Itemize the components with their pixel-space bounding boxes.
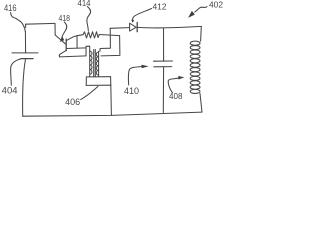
- leader 410 tail: [128, 67, 141, 85]
- battery 404 wire bottom: [23, 59, 26, 116]
- svg-text:410: 410: [124, 86, 139, 96]
- svg-text:404: 404: [2, 86, 18, 96]
- transistor Q1 collector: [66, 36, 77, 41]
- bottom rail: [23, 112, 202, 116]
- resistor R1 zigzag 414: [83, 32, 99, 38]
- wire switch to corner: [26, 22, 55, 25]
- transistor Q1 bar: [65, 39, 67, 51]
- svg-text:406: 406: [65, 97, 80, 107]
- capacitor C1 branch upper: [163, 28, 165, 61]
- wire collector drop: [76, 36, 78, 48]
- svg-text:408: 408: [169, 92, 183, 101]
- transformer T1 winding bottom line: [86, 76, 110, 78]
- leader 418 arrowhead: [60, 36, 64, 42]
- battery 404 top plate: [12, 52, 38, 54]
- leader 408 arrowhead: [178, 76, 184, 80]
- leader 402 arrowhead: [188, 11, 195, 18]
- inductor L1 coil 408: [190, 41, 200, 93]
- transformer T1 core lines: [94, 50, 96, 77]
- label 404: [2, 86, 18, 96]
- svg-text:414: 414: [78, 0, 91, 8]
- resistor R1 wire left: [77, 35, 83, 36]
- svg-text:416: 416: [4, 3, 17, 13]
- leader 410 arrowhead: [141, 65, 148, 69]
- capacitor C1 bottom plate: [154, 66, 172, 68]
- label 418: [59, 13, 71, 23]
- capacitor C1 branch lower: [162, 67, 164, 113]
- label 416: [4, 3, 17, 13]
- label 412: [153, 1, 167, 11]
- transformer T1 secondary winding: [96, 51, 98, 77]
- wire base diagonal: [55, 35, 65, 44]
- diode D1 triangle: [130, 23, 137, 31]
- capacitor C1 top plate: [154, 60, 173, 62]
- leader 416: [11, 13, 16, 19]
- wire top rail to diode: [110, 27, 129, 30]
- switch S1 blade: [16, 18, 25, 31]
- transformer T1 box right side: [110, 77, 112, 86]
- wire base-right horizontal: [66, 47, 86, 50]
- label 414: [78, 0, 91, 8]
- leader 412 arrowhead: [131, 20, 134, 23]
- wire emitter bottom: [60, 56, 86, 57]
- inductor L1 top wire: [200, 26, 203, 41]
- transformer T1 box left side: [85, 77, 87, 86]
- inductor L1 bottom wire: [200, 94, 202, 113]
- leader 418: [62, 22, 67, 38]
- label 410: [124, 86, 139, 96]
- battery 404 wire top: [24, 32, 26, 53]
- wire emitter jog up: [86, 46, 90, 56]
- leader 406: [81, 86, 98, 99]
- label 408: [169, 92, 183, 101]
- switch S1 contact stub: [25, 24, 27, 27]
- wire B drop from resistor line: [101, 36, 120, 56]
- leader 412: [133, 9, 152, 22]
- leader 404: [11, 59, 21, 85]
- transistor Q1 emitter: [59, 50, 66, 57]
- leader 414: [87, 7, 91, 31]
- battery 404 bottom plate: [21, 58, 33, 60]
- leader 408: [168, 78, 178, 93]
- svg-text:402: 402: [209, 0, 223, 10]
- transformer T1 skirt: [86, 84, 111, 86]
- wire resistor out: [99, 35, 119, 36]
- label 402: [209, 0, 223, 10]
- top rail diode to right corner: [137, 26, 201, 28]
- leader 402 squiggle: [195, 7, 207, 13]
- diode D1 cathode bar: [136, 22, 138, 31]
- wire corner down: [54, 23, 56, 35]
- transformer T1 primary winding: [90, 50, 92, 76]
- label 406: [65, 97, 80, 107]
- wire node up to top rail: [100, 28, 111, 51]
- svg-text:412: 412: [153, 1, 167, 11]
- wire transformer drop to rail: [110, 85, 113, 115]
